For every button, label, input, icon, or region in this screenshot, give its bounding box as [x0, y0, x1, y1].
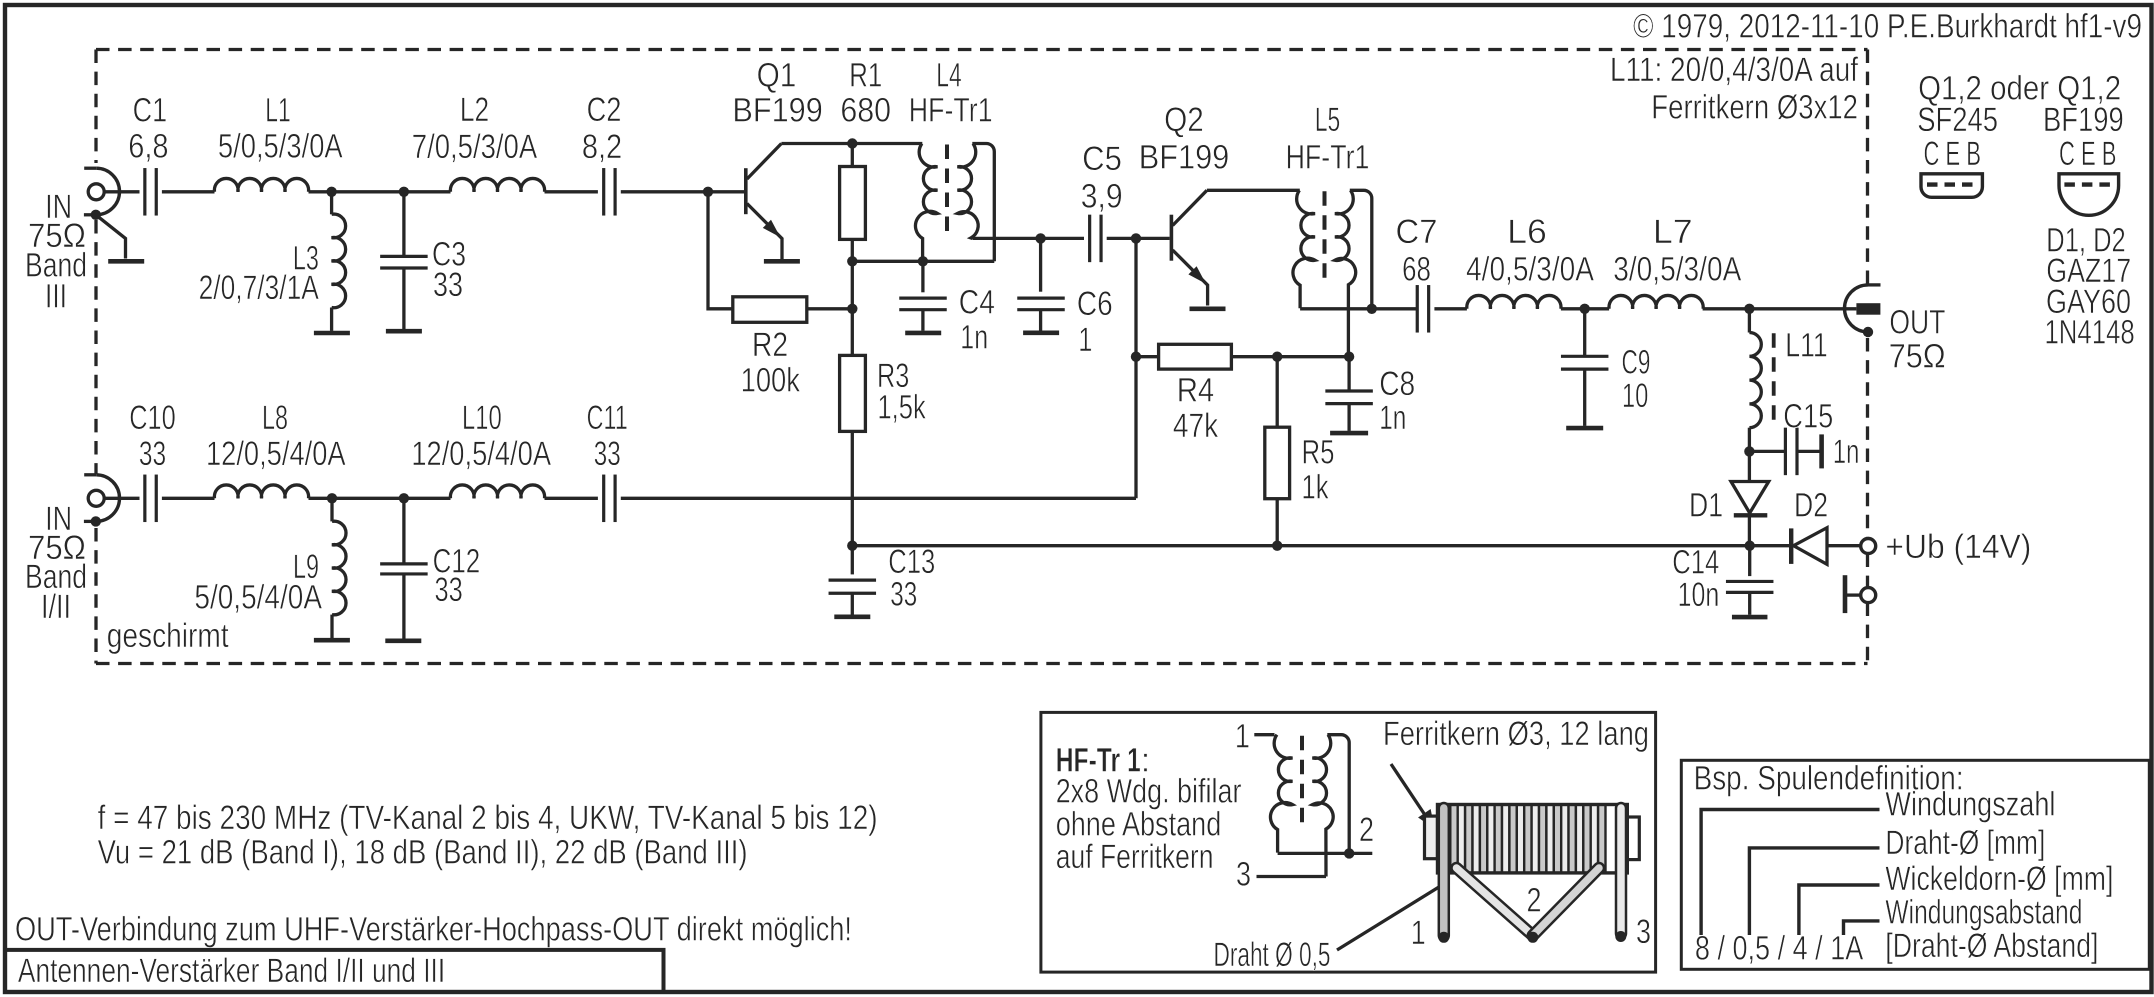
svg-text:100k: 100k [741, 362, 801, 400]
svg-text:L6: L6 [1507, 213, 1547, 251]
wire output node to C7 [1372, 307, 1418, 310]
node L11 top [1744, 304, 1754, 314]
shield dashed border top [96, 48, 1868, 51]
node R2 right [847, 304, 857, 314]
svg-text:8,2: 8,2 [582, 128, 622, 166]
capacitor C2 [602, 168, 605, 216]
svg-text:3/0,5/3/0A: 3/0,5/3/0A [1613, 251, 1741, 289]
svg-text:© 1979, 2012-11-10 P.E.Burkhar: © 1979, 2012-11-10 P.E.Burkhardt hf1-v9 [1633, 8, 2142, 46]
wire IN2 to C10 [104, 497, 139, 500]
capacitor C12 [402, 498, 405, 563]
HF-Tr1 info box [1041, 712, 1656, 972]
capacitor C10 [143, 475, 146, 523]
svg-text:680: 680 [840, 92, 891, 130]
svg-text:8 / 0,5 / 4 / 1A: 8 / 0,5 / 4 / 1A [1695, 930, 1864, 968]
HF-Tr1 symbol pin3 wire [1257, 875, 1327, 878]
capacitor C4 [921, 261, 924, 292]
C15 terminal bar [1819, 434, 1824, 468]
wire L7 to OUT [1703, 307, 1857, 310]
svg-text:33: 33 [594, 435, 621, 473]
svg-text:3: 3 [1236, 855, 1251, 893]
svg-text:1N4148: 1N4148 [2044, 314, 2134, 352]
node C9 top [1580, 304, 1590, 314]
svg-text:Q2: Q2 [1164, 101, 1204, 139]
wire L6 to L7 [1561, 307, 1609, 310]
diode D2 [1750, 544, 1790, 547]
node R4 left [1131, 352, 1141, 362]
wire L1 to L2 [309, 190, 451, 193]
node D1/D2/C14 [1745, 541, 1755, 551]
svg-text:L11: L11 [1785, 326, 1828, 364]
node R5 top [1272, 352, 1282, 362]
node R5 bottom [1272, 541, 1282, 551]
svg-text:C5: C5 [1082, 140, 1122, 178]
svg-text:3,9: 3,9 [1081, 178, 1123, 216]
svg-text:Q1: Q1 [757, 56, 797, 94]
inductor L1 [214, 178, 308, 191]
node Q1 base [703, 187, 713, 197]
capacitor C7 [1416, 285, 1419, 333]
svg-text:+Ub (14V): +Ub (14V) [1885, 528, 2031, 566]
ground C8 [1330, 431, 1368, 436]
wire collector rail 2 [1207, 189, 1300, 192]
shield dashed border left [94, 50, 97, 164]
HF-Tr1 symbol left winding [1270, 735, 1292, 853]
svg-text:1n: 1n [960, 319, 988, 357]
ground C12 [385, 638, 421, 643]
svg-text:R1: R1 [849, 56, 882, 94]
wire L4 out to C5 [972, 237, 1084, 240]
node IN1 shield dot [91, 210, 101, 220]
resistor R2 [708, 192, 733, 309]
svg-text:HF-Tr1: HF-Tr1 [909, 92, 993, 130]
ground Q2 emitter [1190, 306, 1226, 311]
svg-text:33: 33 [435, 571, 463, 609]
svg-text:1k: 1k [1302, 469, 1330, 507]
svg-text:C7: C7 [1396, 213, 1438, 251]
capacitor C14 [1748, 546, 1751, 576]
+Ub terminal [1861, 539, 1876, 554]
svg-text:R5: R5 [1302, 434, 1335, 472]
svg-text:D2: D2 [1794, 487, 1828, 525]
ground C13 [834, 614, 870, 619]
svg-text:2/0,7/3/1A: 2/0,7/3/1A [199, 269, 320, 307]
ground C3 [386, 329, 422, 334]
svg-text:6,8: 6,8 [128, 127, 168, 165]
inductor L2 [450, 178, 544, 191]
ground C14 [1732, 615, 1768, 620]
svg-text:4/0,5/3/0A: 4/0,5/3/0A [1466, 250, 1594, 288]
svg-text:R4: R4 [1177, 372, 1215, 410]
HF-Tr1 symbol core [1300, 736, 1304, 830]
inductor L3 [330, 192, 333, 215]
shield dashed border right [1866, 50, 1869, 285]
resistor R1 [851, 144, 854, 167]
svg-text:BF199: BF199 [732, 92, 823, 130]
svg-text:Draht Ø 0,5: Draht Ø 0,5 [1214, 936, 1331, 974]
capacitor C3 [402, 192, 405, 256]
capacitor C6 [1039, 238, 1042, 291]
HF-Tr1 symbol right top wire down to pin2 [1327, 735, 1349, 854]
node C8 top [1344, 352, 1354, 362]
L4 right winding [958, 144, 979, 239]
title box [5, 950, 664, 992]
node C3 tap [399, 187, 409, 197]
ground L9 [314, 638, 350, 643]
svg-text:Vu = 21 dB (Band I), 18 dB (Ba: Vu = 21 dB (Band I), 18 dB (Band II), 22… [98, 833, 748, 871]
diode D1 [1748, 451, 1751, 481]
inductor L9 [330, 498, 333, 521]
svg-text:BF199: BF199 [1139, 139, 1230, 177]
L4 left winding [915, 144, 937, 262]
svg-text:L2: L2 [460, 91, 489, 129]
svg-text:C11: C11 [587, 399, 628, 437]
node C13 [847, 541, 857, 551]
svg-text:BF199: BF199 [2043, 101, 2124, 139]
svg-text:HF-Tr1: HF-Tr1 [1286, 139, 1370, 177]
L5 left winding [1293, 190, 1315, 308]
wire C11 to Q2 base column [621, 497, 1136, 500]
node HF-Tr1 pin2 [1344, 848, 1354, 858]
resistor R3 [840, 355, 866, 431]
svg-text:1,5k: 1,5k [878, 389, 927, 427]
svg-text:Wickeldorn-Ø [mm]: Wickeldorn-Ø [mm] [1885, 860, 2113, 898]
wire R1 bottom to R2 node [851, 261, 854, 355]
shield dashed border bottom [96, 662, 1868, 665]
wire C5 to Q2 base [1107, 237, 1170, 240]
wire C7 to L6 [1434, 307, 1467, 310]
svg-text:47k: 47k [1173, 407, 1219, 445]
svg-text:auf Ferritkern: auf Ferritkern [1056, 838, 1214, 876]
svg-text:1n: 1n [1379, 399, 1406, 437]
svg-text:5/0,5/3/0A: 5/0,5/3/0A [218, 127, 343, 165]
node OUT shield [1863, 327, 1873, 337]
svg-text:C10: C10 [129, 399, 176, 437]
svg-text:C9: C9 [1622, 343, 1651, 381]
capacitor C1 [143, 168, 146, 216]
svg-text:C E B: C E B [2059, 135, 2117, 173]
svg-text:L4: L4 [936, 56, 961, 94]
wire IN1 to C1 [104, 190, 139, 193]
svg-text:7/0,5/3/0A: 7/0,5/3/0A [412, 128, 538, 166]
BF199 package symbol [2059, 174, 2119, 216]
capacitor C8 [1347, 357, 1350, 392]
node Q2 base [1131, 233, 1141, 243]
node L9 tap [327, 493, 337, 503]
node L11 bottom [1744, 446, 1754, 456]
svg-text:C15: C15 [1783, 398, 1833, 436]
IN Band I/II connector [88, 490, 104, 506]
ground terminal [1861, 588, 1876, 603]
svg-text:10n: 10n [1678, 576, 1720, 614]
svg-text:Windungsabstand: Windungsabstand [1885, 893, 2082, 931]
capacitor C5 [1088, 215, 1091, 263]
svg-text:1: 1 [1078, 321, 1092, 359]
coil terminal 1 [1438, 932, 1449, 943]
node L3 tap [326, 187, 336, 197]
svg-text:SF245: SF245 [1917, 101, 1998, 139]
IN Band III connector [88, 184, 104, 200]
svg-text:L8: L8 [262, 399, 288, 437]
wire collector rail 1 [781, 142, 922, 145]
HF-Tr1 symbol right winding [1313, 735, 1334, 877]
svg-text:Antennen-Verstärker Band I/II: Antennen-Verstärker Band I/II und III [18, 952, 445, 990]
SF245 package symbol [1921, 174, 1982, 198]
node C6 tap [1035, 233, 1045, 243]
svg-text:geschirmt: geschirmt [107, 617, 229, 655]
Bsp Spulendefinition box [1681, 760, 2149, 969]
svg-text:75Ω: 75Ω [1889, 337, 1946, 375]
svg-text:12/0,5/4/0A: 12/0,5/4/0A [411, 435, 551, 473]
coil terminal 3 [1615, 931, 1626, 942]
inductor L6 [1467, 295, 1561, 308]
svg-text:C4: C4 [959, 283, 995, 321]
svg-text:[Draht-Ø Abstand]: [Draht-Ø Abstand] [1885, 927, 2098, 965]
svg-text:33: 33 [433, 266, 463, 304]
svg-text:OUT: OUT [1889, 304, 1945, 342]
ground C6 [1023, 330, 1059, 335]
svg-text:2: 2 [1527, 882, 1542, 920]
svg-text:1n: 1n [1833, 433, 1860, 471]
inductor L7 [1609, 295, 1703, 308]
HF-Tr1 symbol pin2 bus [1278, 852, 1373, 855]
svg-text:D1: D1 [1689, 487, 1723, 525]
node IN2 shield dot [91, 516, 101, 526]
resistor R4 [1136, 355, 1159, 358]
L4 core [945, 145, 949, 239]
svg-text:10: 10 [1622, 377, 1649, 415]
svg-text:2: 2 [1359, 811, 1374, 849]
coil wire ribbons [1438, 808, 1451, 936]
ground C9 [1566, 426, 1603, 431]
inductor L11 [1748, 309, 1751, 333]
capacitor C13 [851, 546, 854, 575]
wire L10 to C11 [545, 497, 598, 500]
wire C10 to L8 [162, 497, 215, 500]
svg-text:33: 33 [139, 435, 166, 473]
capacitor C11 [602, 475, 605, 523]
svg-text:12/0,5/4/0A: 12/0,5/4/0A [206, 435, 346, 473]
svg-text:C8: C8 [1379, 365, 1415, 403]
svg-text:Windungszahl: Windungszahl [1885, 786, 2055, 824]
transistor Q1 [744, 168, 748, 214]
svg-text:L7: L7 [1653, 213, 1693, 251]
svg-text:III: III [45, 277, 67, 315]
L5 core [1323, 191, 1327, 285]
ground L3 [314, 331, 350, 336]
wire bus2 [1300, 307, 1372, 310]
transistor Q2 [1170, 215, 1174, 261]
svg-text:C6: C6 [1077, 285, 1113, 323]
node R1 top [847, 138, 857, 148]
svg-text:R2: R2 [752, 326, 788, 364]
wire C1 to L1 [162, 190, 215, 193]
svg-text:33: 33 [890, 575, 917, 613]
wire L8 to L10 [309, 497, 451, 500]
svg-text:C2: C2 [587, 91, 622, 129]
wire bus1 [852, 260, 994, 263]
svg-text:Draht-Ø [mm]: Draht-Ø [mm] [1885, 824, 2045, 862]
L5 right winding [1335, 190, 1356, 356]
L5 right top wire down to output [1350, 190, 1372, 308]
svg-text:1: 1 [1411, 914, 1426, 952]
L11 core [1772, 333, 1776, 427]
svg-text:f = 47 bis 230 MHz (TV-Kanal 2: f = 47 bis 230 MHz (TV-Kanal 2 bis 4, UK… [98, 799, 878, 837]
capacitor C15 [1749, 450, 1785, 453]
capacitor C9 [1583, 309, 1586, 357]
inductor L10 [450, 485, 544, 498]
node R1 bottom / bus1 [847, 256, 857, 266]
coil terminal 2 [1527, 932, 1538, 943]
coil body drawing [1425, 816, 1438, 859]
resistor R5 [1276, 357, 1279, 428]
ground Q1 emitter [764, 259, 800, 264]
svg-text:L1: L1 [265, 92, 290, 130]
wire C2 to Q1 base [621, 190, 744, 193]
L4 right top wire down to bus [972, 144, 994, 262]
wire Q2 base node down to channel 2 [1134, 238, 1137, 498]
node C12 tap [399, 493, 409, 503]
svg-text:L5: L5 [1315, 101, 1340, 139]
OUT connector [1844, 285, 1868, 332]
HF-Tr1 symbol pin1 wire [1254, 733, 1274, 736]
wire supply bus [852, 544, 1749, 547]
svg-text:C1: C1 [133, 92, 168, 130]
ground C4 [905, 331, 941, 336]
wire L2 to C2 [545, 190, 598, 193]
svg-text:C E B: C E B [1924, 135, 1982, 173]
svg-text:Ferritkern Ø3x12: Ferritkern Ø3x12 [1651, 89, 1858, 127]
inductor L8 [214, 485, 308, 498]
svg-text:Ferritkern Ø3, 12 lang: Ferritkern Ø3, 12 lang [1383, 715, 1649, 753]
ground IN1 [96, 215, 126, 259]
svg-text:L10: L10 [462, 399, 502, 437]
svg-text:68: 68 [1402, 250, 1431, 288]
svg-text:I/II: I/II [41, 588, 71, 626]
svg-text:3: 3 [1636, 913, 1651, 951]
spool definition elbows [1701, 810, 1879, 936]
svg-text:5/0,5/4/0A: 5/0,5/4/0A [194, 579, 322, 617]
svg-text:L11: 20/0,4/3/0A auf: L11: 20/0,4/3/0A auf [1610, 51, 1858, 89]
svg-text:OUT-Verbindung zum UHF-Verstär: OUT-Verbindung zum UHF-Verstärker-Hochpa… [15, 911, 852, 949]
svg-text:1: 1 [1235, 717, 1250, 755]
node output [1367, 304, 1377, 314]
node C4 tap [918, 256, 928, 266]
